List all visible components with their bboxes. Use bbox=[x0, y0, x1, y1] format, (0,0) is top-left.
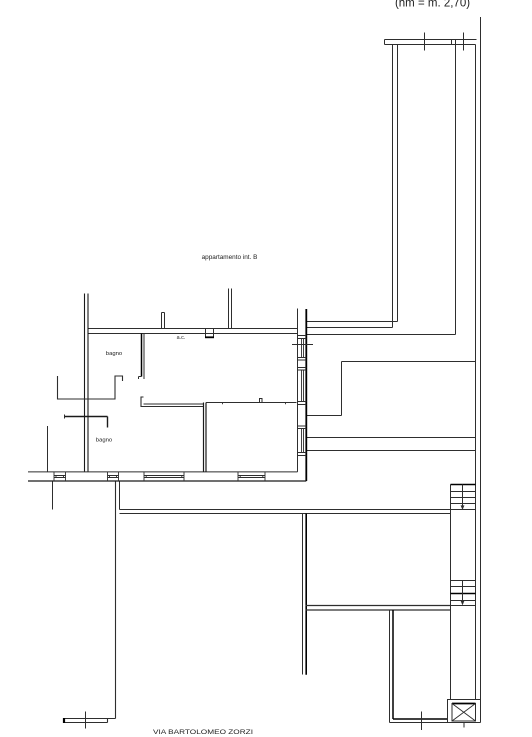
flue stub top left bbox=[162, 313, 165, 329]
section tick on right wall bbox=[292, 344, 313, 346]
apartment top wall outer line bbox=[88, 333, 298, 335]
step wall right middle bbox=[307, 362, 476, 416]
walkway line lower bbox=[307, 450, 476, 452]
short vertical below bagno window bbox=[52, 481, 54, 510]
terrace left wall bbox=[393, 45, 398, 328]
stairs upper flight treads bbox=[451, 492, 476, 504]
terrace right wall bbox=[455, 45, 457, 335]
wall mid double bbox=[144, 404, 204, 407]
wire horizontal y335 bbox=[307, 334, 456, 336]
wall single y402 bbox=[206, 402, 297, 404]
stairs lower flight thick tread bbox=[451, 593, 476, 595]
terrace bottom wall bbox=[307, 322, 398, 328]
door bracket cap bbox=[141, 397, 144, 407]
band left corner vertical bbox=[119, 481, 121, 510]
bagno2 wall top bbox=[65, 417, 108, 428]
stairs lower flight direction line bbox=[462, 581, 464, 603]
tick mark left on band bbox=[424, 33, 426, 51]
apartment right wall thick bbox=[305, 309, 307, 481]
notch on wall y402 bbox=[260, 399, 263, 403]
bagno2 left wall bbox=[47, 426, 49, 472]
window right W1 bbox=[298, 336, 307, 361]
window right W3 bbox=[298, 426, 307, 456]
bagno1 wall thick line bbox=[141, 334, 143, 377]
svg-text:bagno: bagno bbox=[96, 438, 113, 444]
boundary end bar bbox=[64, 719, 116, 723]
window bottom BW1 bbox=[54, 472, 66, 481]
terrace top band bbox=[385, 40, 477, 45]
ac box bbox=[206, 329, 214, 338]
window bottom BW4 bbox=[238, 472, 265, 481]
courtyard bottom wall thin bbox=[390, 722, 481, 724]
courtyard bottom wall thick bbox=[393, 718, 448, 720]
band below apartment lower line bbox=[120, 513, 451, 515]
apartment left wall pair bbox=[85, 294, 89, 473]
stairs upper flight arrow bbox=[461, 505, 465, 510]
stairs lower flight arrow bbox=[461, 601, 465, 606]
gate tick bottom bbox=[421, 712, 423, 731]
elevator X diagonals bbox=[452, 704, 476, 722]
courtyard wall outer line bbox=[305, 514, 307, 675]
elevator cab top thick edge bbox=[452, 703, 476, 705]
svg-text:appartamento int. B: appartamento int. B bbox=[202, 254, 258, 261]
gate tick left bbox=[85, 712, 87, 729]
long boundary vertical left bbox=[115, 481, 117, 719]
svg-text:a.c.: a.c. bbox=[177, 335, 186, 341]
svg-text:(hm = m. 2,70): (hm = m. 2,70) bbox=[395, 0, 470, 9]
window bottom BW3 bbox=[144, 472, 184, 481]
duct U outline bbox=[58, 376, 123, 399]
walkway line upper bbox=[307, 437, 476, 439]
hinge tick b bbox=[285, 403, 287, 405]
courtyard wall inner line bbox=[302, 514, 304, 675]
apartment bottom wall inner line bbox=[28, 471, 298, 473]
band below apartment upper line bbox=[120, 509, 476, 511]
stairs upper flight direction line bbox=[462, 485, 464, 508]
elevator door tick bbox=[463, 723, 465, 728]
building right inner line bbox=[475, 45, 477, 700]
courtyard horizontal upper bbox=[306, 605, 451, 607]
room divider wall pair bbox=[204, 403, 207, 472]
svg-text:VIA BARTOLOMEO ZORZI: VIA BARTOLOMEO ZORZI bbox=[153, 729, 253, 736]
tick mark right on band bbox=[463, 33, 465, 51]
courtyard left wall inner bbox=[389, 610, 391, 723]
apartment top wall inner line bbox=[88, 328, 298, 330]
stairs lower flight treads bbox=[451, 581, 476, 606]
apartment bottom wall outer line bbox=[28, 480, 306, 482]
ac box bottom thick bbox=[205, 336, 214, 338]
building right outer line bbox=[480, 17, 482, 723]
door jamb stubs top middle bbox=[229, 289, 232, 329]
window bottom BW2 bbox=[108, 472, 119, 481]
bagno1 wall thin line bbox=[143, 334, 145, 380]
apartment right wall inner line bbox=[297, 309, 299, 472]
bagno2 wall end cap bbox=[64, 415, 66, 419]
elevator shaft outer wall bbox=[448, 700, 481, 723]
stairwell left wall bbox=[450, 485, 452, 700]
window right W2 bbox=[298, 368, 307, 405]
hinge tick a bbox=[222, 403, 224, 405]
stairs upper flight top edge bbox=[451, 484, 476, 486]
courtyard left wall outer bbox=[392, 610, 394, 719]
boundary end cap bbox=[63, 718, 65, 723]
svg-text:bagno: bagno bbox=[106, 351, 123, 357]
bagno1 wall foot hook bbox=[139, 377, 142, 380]
elevator cab box bbox=[452, 704, 476, 722]
courtyard horizontal lower bbox=[306, 609, 451, 611]
